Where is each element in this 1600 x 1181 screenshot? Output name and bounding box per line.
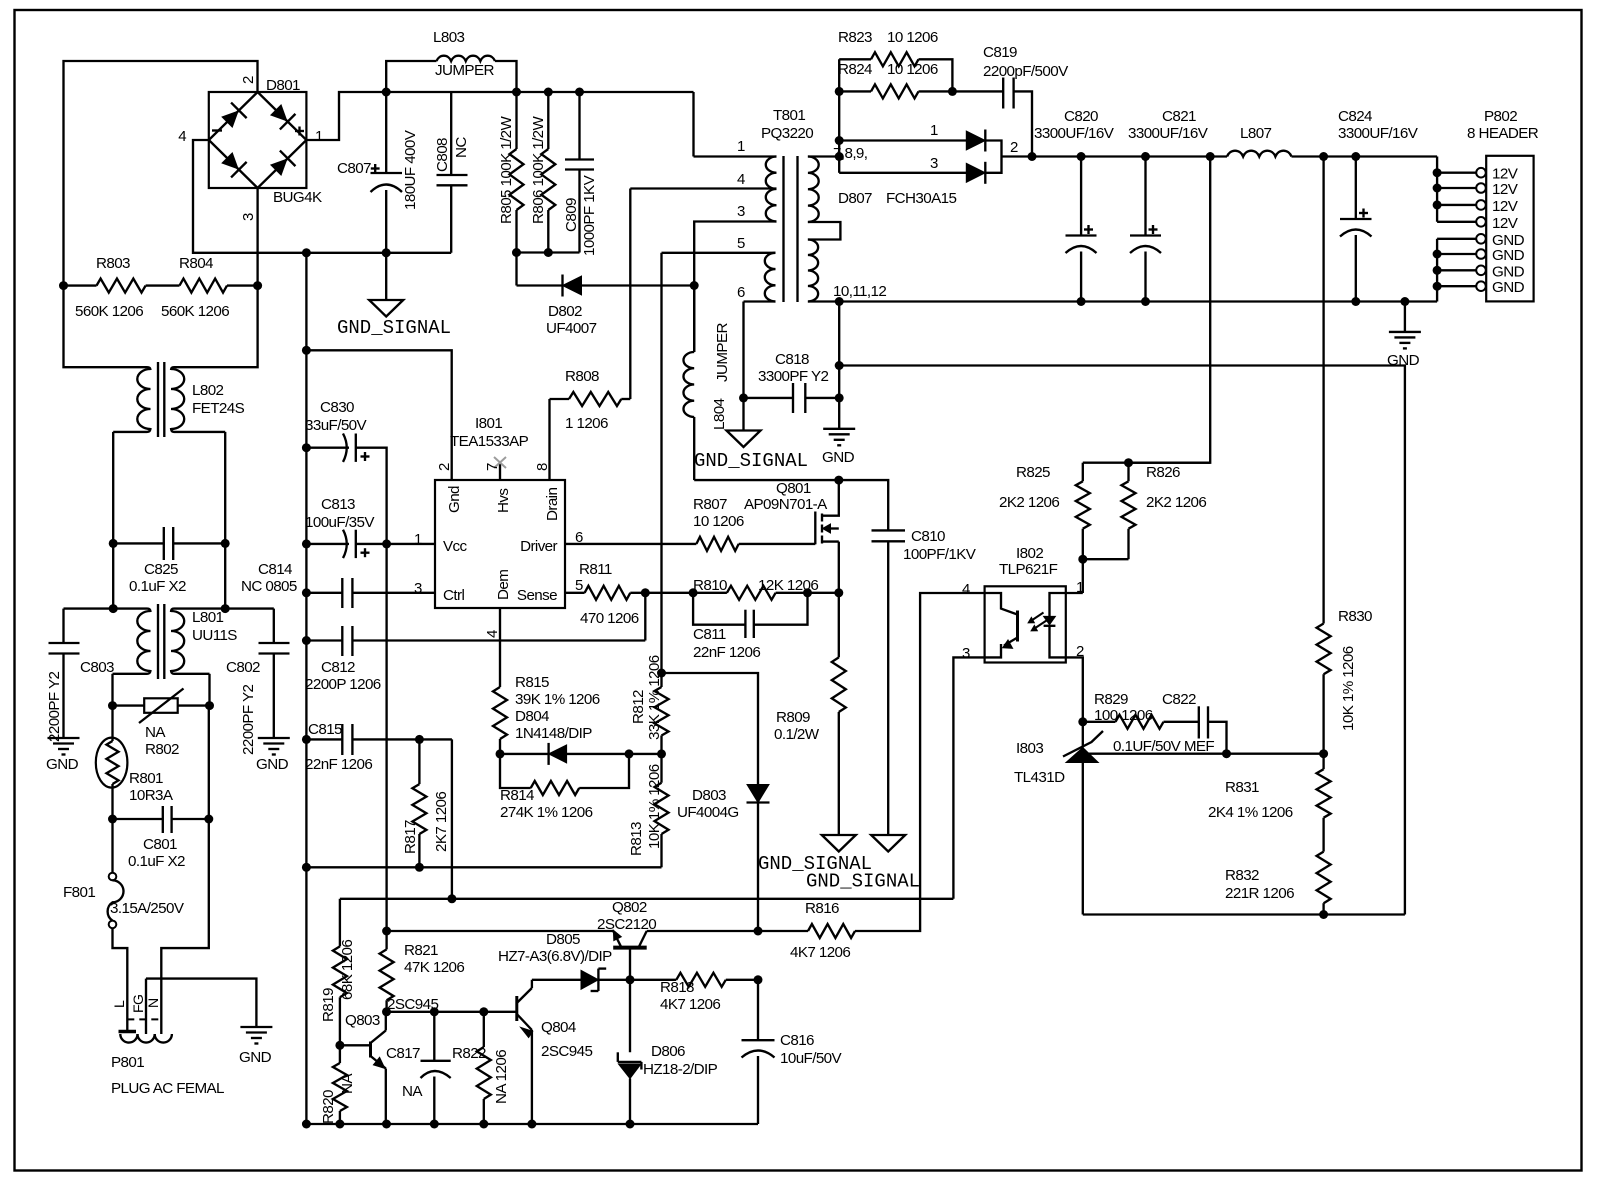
resistor R831 (1317, 754, 1331, 852)
wire GND rail (839, 300, 1437, 302)
label C815 value (305, 756, 372, 773)
svg-text:PQ3220: PQ3220 (761, 125, 813, 142)
svg-text:Q804: Q804 (541, 1019, 576, 1036)
wire Q804 collector riser (531, 980, 533, 988)
label D802 (548, 303, 582, 320)
svg-text:D805: D805 (546, 931, 580, 948)
capacitor C821 electrolytic (1130, 157, 1161, 302)
node C801 left (108, 815, 117, 824)
label T801 value (761, 125, 813, 142)
label C830 (320, 399, 354, 416)
node C811 right (803, 588, 812, 597)
svg-text:TEA1533AP: TEA1533AP (450, 433, 529, 450)
svg-text:P802: P802 (1484, 108, 1517, 125)
svg-text:2200PF Y2: 2200PF Y2 (240, 685, 257, 755)
resistor R826 (1122, 463, 1136, 560)
node 12v pin2 (1433, 184, 1442, 193)
svg-text:C803: C803 (80, 659, 114, 676)
svg-text:TL431D: TL431D (1014, 769, 1065, 786)
node opto pin1 node (1078, 555, 1087, 564)
svg-text:GND_SIGNAL: GND_SIGNAL (758, 853, 872, 875)
bridge rectifier D801 box (209, 92, 307, 188)
label C801 value (128, 853, 185, 870)
label R815 (515, 674, 549, 691)
svg-text:3300PF Y2: 3300PF Y2 (758, 368, 828, 385)
wire C815 riser (451, 739, 453, 898)
svg-text:3: 3 (737, 203, 745, 220)
svg-text:2: 2 (240, 76, 257, 84)
capacitor C807 electrolytic (371, 92, 403, 253)
svg-text:3300UF/16V: 3300UF/16V (1034, 125, 1115, 142)
node R826 top (1124, 458, 1133, 467)
svg-text:L801: L801 (192, 609, 224, 626)
label C819 (983, 44, 1017, 61)
node C821 top (1141, 152, 1150, 161)
resistor R822 (477, 1012, 491, 1124)
label R831 (1225, 779, 1259, 796)
wire secondary bottom tap (808, 300, 839, 302)
label I803 (1016, 740, 1043, 757)
core L801 (158, 604, 164, 679)
svg-text:BUG4K: BUG4K (273, 189, 322, 206)
label D807 pin1 (930, 122, 938, 139)
ground GND under C818 (823, 398, 855, 445)
label R813 (628, 822, 645, 856)
node Q803 collector (382, 1007, 391, 1016)
node C812 left (302, 636, 311, 645)
node C821 bottom (1141, 297, 1150, 306)
node sec bus tap (835, 152, 844, 161)
ground GND_SIGNAL pin6 (727, 398, 761, 447)
node C815 left (302, 735, 311, 744)
node D802 right (690, 281, 699, 290)
node R812 bottom (657, 749, 666, 758)
wire R807 to gate (739, 543, 816, 545)
wire feedback gnd line (839, 366, 1405, 915)
svg-text:UF4004G: UF4004G (677, 804, 739, 821)
label R810 value (758, 577, 818, 594)
node pin2 link (302, 346, 311, 355)
wire opto pin2 to TL431 (1066, 657, 1083, 721)
svg-text:T801: T801 (773, 107, 805, 124)
label L803 JUMPER (435, 62, 494, 79)
node gnd pin6 (1433, 250, 1442, 259)
svg-text:R803: R803 (96, 255, 130, 272)
label D803 value (677, 804, 739, 821)
wire gnd-signal line under C807 (306, 252, 451, 254)
label R809 (776, 709, 810, 726)
wire T801 pin6 line (744, 300, 776, 302)
bridge diode upper-right (268, 102, 296, 130)
label R818 value (660, 996, 720, 1013)
label R817 value (433, 792, 450, 852)
resistor R823 (839, 52, 952, 91)
svg-text:0.1uF X2: 0.1uF X2 (129, 578, 186, 595)
node C824 bottom (1351, 297, 1360, 306)
wire N side down (161, 706, 209, 1034)
label R804 value (161, 303, 229, 320)
svg-text:0.1UF/50V MEF: 0.1UF/50V MEF (1113, 738, 1214, 755)
resistor R814 (500, 754, 629, 795)
inductor L802 right winding (171, 369, 184, 429)
label R809 value (774, 726, 820, 743)
node C820 bottom (1077, 297, 1086, 306)
svg-text:470 1206: 470 1206 (580, 610, 639, 627)
svg-text:NA: NA (145, 724, 166, 741)
label Q804 (541, 1019, 576, 1036)
wire R819 top link (339, 899, 341, 947)
diode D804 (500, 743, 629, 765)
label R811 (579, 561, 612, 578)
resistor R830 (1317, 624, 1331, 754)
wire bridge pin4 down to gnd-signal line (193, 140, 306, 253)
label R830 (1338, 608, 1372, 625)
resistor R817 (412, 739, 426, 867)
wire AC top from left rail to bridge pin 2 (64, 61, 258, 286)
svg-text:GND_SIGNAL: GND_SIGNAL (337, 317, 451, 339)
label R812 (630, 690, 647, 724)
svg-text:C821: C821 (1162, 108, 1196, 125)
label R824 value (887, 61, 938, 78)
label GND_SIGNAL C807 (337, 317, 451, 339)
svg-text:Ctrl: Ctrl (443, 587, 464, 604)
pin 2 stub I801 (0, 0, 1, 1)
label R801 value (129, 787, 174, 804)
node Vcc bus end (382, 927, 391, 936)
svg-text:47K 1206: 47K 1206 (404, 959, 464, 976)
label Q803 (345, 1012, 380, 1029)
node Q804 emitter rail (527, 1120, 536, 1129)
node R832 bottom (1319, 910, 1328, 919)
primary winding T801 5-6 (765, 253, 776, 302)
label C818 value (758, 368, 828, 385)
bridge minus sign (212, 129, 222, 131)
label FG pin (130, 995, 146, 1013)
wire T801 pin4 line (630, 187, 776, 189)
resistor R824 (839, 84, 952, 98)
label pin3 of D801 (240, 213, 257, 221)
label R802 NA (145, 724, 166, 741)
transistor Q801 mosfet (815, 480, 839, 545)
svg-text:C801: C801 (143, 836, 177, 853)
node Q803 emitter rail (382, 1120, 391, 1129)
core L802 (158, 362, 164, 437)
capacitor C809 (565, 88, 594, 253)
wire 12V riser to R825 R826 (1130, 157, 1210, 463)
svg-text:R820: R820 (320, 1090, 337, 1124)
node L801 top right (221, 604, 230, 613)
svg-text:33uF/50V: 33uF/50V (305, 417, 368, 434)
label R822 (452, 1045, 486, 1062)
svg-text:R829: R829 (1094, 691, 1128, 708)
label R801 (129, 770, 163, 787)
node R812 top (657, 669, 666, 678)
svg-text:C810: C810 (911, 528, 945, 545)
label BUG4K (273, 189, 322, 206)
svg-text:C808: C808 (434, 138, 451, 172)
wire L801 right down (208, 674, 210, 706)
opto LED (1044, 593, 1066, 657)
svg-text:100PF/1KV: 100PF/1KV (903, 546, 977, 563)
label pin8 I801 (534, 463, 551, 471)
label C809 (563, 198, 580, 232)
wire R830 riser (1322, 157, 1324, 624)
wire GND pin bus (1436, 239, 1438, 302)
label L804 JUMPER (714, 323, 731, 382)
inductor L801 right winding (171, 611, 184, 671)
wire T801 pin6 down (742, 302, 744, 398)
svg-text:R819: R819 (320, 988, 337, 1022)
label L807 (1240, 125, 1272, 142)
wire L802 left down to C825 line (112, 432, 114, 544)
svg-text:R815: R815 (515, 674, 549, 691)
pin 8 stub I801 (0, 0, 1, 1)
wire HV+ rail (386, 91, 693, 93)
plug P801 dashed line (127, 1018, 163, 1020)
svg-text:R814: R814 (500, 787, 534, 804)
node 12v pin3 (1433, 200, 1442, 209)
label R803 value (75, 303, 143, 320)
svg-text:R823: R823 (838, 29, 872, 46)
label pin4 T801 (737, 171, 745, 188)
inductor L802 left winding (137, 369, 150, 429)
primary winding T801 1-3 (766, 157, 777, 222)
svg-text:100 1206: 100 1206 (1094, 707, 1153, 724)
node C814 left (302, 588, 311, 597)
svg-text:68K 1206: 68K 1206 (339, 940, 356, 1000)
label C819 value (983, 63, 1069, 80)
wire bridge pin1 to HV rail (306, 92, 386, 140)
node rail bus (302, 1120, 311, 1129)
wire L802 left top bend (147, 367, 151, 370)
inductor L807 (1227, 151, 1292, 157)
ground C803 (48, 738, 80, 755)
label D804 value (515, 725, 592, 742)
label R818 (660, 979, 694, 996)
label Q804 value (541, 1043, 592, 1060)
svg-text:10R3A: 10R3A (129, 787, 174, 804)
svg-text:Gnd: Gnd (446, 486, 463, 513)
svg-text:3300UF/16V: 3300UF/16V (1338, 125, 1419, 142)
wire R823-R824 left (838, 59, 840, 140)
label R808 value (565, 415, 608, 432)
label R812 value (646, 655, 663, 740)
svg-text:L802: L802 (192, 382, 224, 399)
wire C825 left down to L801 (112, 543, 114, 608)
node C813 right (382, 539, 391, 548)
node R806 top (544, 88, 553, 97)
node L801 top left (109, 604, 118, 613)
wire bottom rail (306, 1123, 758, 1125)
wire TL431 ref line (1087, 753, 1227, 755)
capacitor C801 (113, 806, 209, 833)
label R820 (320, 1090, 337, 1124)
svg-text:R806 100K 1/2W: R806 100K 1/2W (530, 115, 547, 224)
svg-text:P801: P801 (111, 1054, 144, 1071)
node D804 line left (496, 749, 505, 758)
svg-text:GND: GND (822, 449, 855, 466)
label C817 NA (402, 1083, 423, 1100)
diode D807 upper (966, 130, 985, 152)
plus C813 (361, 548, 370, 557)
svg-text:2K2 1206: 2K2 1206 (1146, 494, 1206, 511)
label C820 (1064, 108, 1098, 125)
label GND FG (239, 1049, 272, 1066)
label C820 value (1034, 125, 1115, 142)
svg-text:39K 1% 1206: 39K 1% 1206 (515, 691, 600, 708)
svg-text:JUMPER: JUMPER (435, 62, 494, 79)
wire pin5 riser (660, 253, 662, 673)
inductor L803 (386, 56, 516, 92)
wire T801 pin3 line (694, 222, 776, 353)
capacitor C820 electrolytic (1066, 157, 1097, 302)
pin 4 stub I801 (499, 608, 501, 687)
label R814 (500, 787, 534, 804)
label Ctrl I801 (443, 587, 464, 604)
capacitor C816 electrolytic (742, 980, 775, 1124)
resistor R805 (510, 92, 524, 253)
label PLUG AC FEMAL (111, 1080, 224, 1097)
capacitor C803 (49, 609, 80, 738)
svg-text:HZ18-2/DIP: HZ18-2/DIP (643, 1061, 718, 1078)
label 789 tap (833, 145, 867, 162)
label pin4 I802 (962, 581, 970, 598)
svg-text:C817: C817 (386, 1045, 420, 1062)
label pin6 I801 (575, 529, 583, 546)
label R813 value (646, 764, 663, 849)
resistor R806 (541, 92, 555, 253)
label Gnd I801 (446, 486, 463, 513)
node sense b (689, 588, 698, 597)
node R803 left (59, 281, 68, 290)
svg-text:4: 4 (737, 171, 745, 188)
label C824 value (1338, 125, 1419, 142)
label D803 (692, 787, 726, 804)
svg-text:180UF 400V: 180UF 400V (402, 129, 419, 210)
svg-text:2SC945: 2SC945 (541, 1043, 592, 1060)
label T801 (773, 107, 805, 124)
capacitor C808 (437, 92, 468, 253)
svg-text:R825: R825 (1016, 464, 1050, 481)
svg-text:GND: GND (256, 756, 289, 773)
label L801 (192, 609, 224, 626)
svg-text:6: 6 (737, 284, 745, 301)
label R816 value (790, 944, 850, 961)
capacitor C818 (744, 383, 840, 413)
svg-text:C811: C811 (693, 626, 726, 643)
label C809 value (581, 174, 598, 256)
label L pin (111, 1000, 127, 1008)
label C807 value (402, 129, 419, 210)
label R807 (693, 496, 727, 513)
node R824 left (835, 87, 844, 96)
capacitor C830 electrolytic (306, 434, 386, 544)
label R831 value (1208, 804, 1293, 821)
node C807 bottom (382, 248, 391, 257)
svg-text:R810: R810 (693, 577, 727, 594)
resistor R818 (630, 973, 758, 987)
svg-text:C824: C824 (1338, 108, 1372, 125)
label GND_SIGNAL pin6 (694, 450, 808, 472)
label R821 value (404, 959, 464, 976)
svg-text:1N4148/DIP: 1N4148/DIP (515, 725, 592, 742)
svg-text:R809: R809 (776, 709, 810, 726)
svg-text:Hvs: Hvs (495, 488, 512, 513)
wire R805 node down (515, 253, 517, 286)
label pin1 T801 (737, 138, 745, 155)
diode D802 (517, 275, 695, 297)
label R824 (838, 61, 872, 78)
svg-text:C813: C813 (321, 496, 355, 513)
label R817 (402, 820, 419, 854)
svg-text:R821: R821 (404, 942, 438, 959)
svg-text:3300UF/16V: 3300UF/16V (1128, 125, 1209, 142)
label C811 value (693, 644, 760, 661)
wire secondary top tap (808, 155, 839, 157)
node gnd pin7 (1433, 266, 1442, 275)
svg-text:D803: D803 (692, 787, 726, 804)
plug P801 FG pin (145, 979, 147, 1034)
node R820 rail (335, 1120, 344, 1129)
svg-text:NA: NA (339, 1073, 356, 1094)
wire snubber bottom line (517, 251, 580, 253)
svg-text:C812: C812 (321, 659, 355, 676)
svg-text:560K 1206: 560K 1206 (75, 303, 143, 320)
wire D807 pin1 line (839, 139, 968, 141)
label N pin (145, 998, 161, 1008)
svg-text:PLUG AC FEMAL: PLUG AC FEMAL (111, 1080, 224, 1097)
svg-text:R822: R822 (452, 1045, 486, 1062)
svg-text:FCH30A15: FCH30A15 (886, 190, 956, 207)
svg-text:GND_SIGNAL: GND_SIGNAL (694, 450, 808, 472)
svg-text:Q801: Q801 (776, 480, 811, 497)
svg-text:2K2 1206: 2K2 1206 (999, 494, 1059, 511)
svg-text:L804: L804 (711, 398, 728, 430)
svg-text:C818: C818 (775, 351, 809, 368)
resistor R804 (180, 279, 228, 293)
wire bridge pin3 down (256, 188, 258, 286)
svg-text:2: 2 (1010, 139, 1018, 156)
label pin2 I802 (1076, 643, 1084, 660)
node 12v pin1 (1433, 168, 1442, 177)
label pin4 I801 (484, 630, 501, 638)
wire bridge3 node down to L802 (174, 286, 258, 368)
node R830 riser top (1319, 152, 1328, 161)
node C824 top (1351, 152, 1360, 161)
label L803 (433, 29, 465, 46)
svg-text:NC 0805: NC 0805 (241, 578, 297, 595)
svg-text:I802: I802 (1016, 545, 1043, 562)
svg-text:2K4 1% 1206: 2K4 1% 1206 (1208, 804, 1293, 821)
label pin3 T801 (737, 203, 745, 220)
svg-text:12V: 12V (1492, 198, 1519, 215)
resistor R832 (1317, 852, 1331, 915)
svg-text:I801: I801 (475, 415, 502, 432)
wire HV rail to T801 pin1 (692, 92, 694, 157)
label C803 value (46, 672, 63, 742)
label C817 (386, 1045, 420, 1062)
svg-text:AP09N701-A: AP09N701-A (744, 496, 828, 513)
node C830 left (302, 443, 311, 452)
svg-text:FET24S: FET24S (192, 400, 245, 417)
ground GND_SIGNAL C810 (871, 835, 905, 852)
wire R812-D804 link (629, 753, 662, 755)
svg-text:R804: R804 (179, 255, 213, 272)
secondary winding jog (808, 222, 841, 240)
opto transistor (985, 593, 1018, 657)
svg-text:4: 4 (484, 630, 501, 638)
label C813 value (305, 514, 375, 531)
